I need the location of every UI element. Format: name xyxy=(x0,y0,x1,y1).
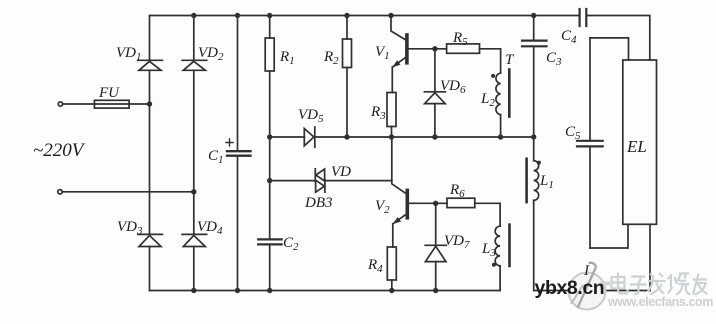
wire top rail right of C4 xyxy=(587,16,650,61)
svg-text:VD: VD xyxy=(331,164,351,180)
wire bottom rail xyxy=(150,290,501,292)
watermark logo circle xyxy=(569,263,606,310)
node input terminal 1 xyxy=(58,102,62,106)
wire column VD2/VD4 xyxy=(193,16,195,291)
svg-text:V1: V1 xyxy=(375,44,390,62)
capacitor C1 xyxy=(227,150,251,152)
diode VD3 xyxy=(138,233,163,235)
svg-text:L3: L3 xyxy=(481,241,496,259)
wire VD6 column xyxy=(434,49,436,137)
svg-text:R6: R6 xyxy=(449,182,465,200)
svg-text:L2: L2 xyxy=(480,91,495,109)
junction dot input2 node xyxy=(191,189,196,194)
capacitor C5 xyxy=(577,140,603,142)
svg-text:C4: C4 xyxy=(561,28,577,46)
wire midpoint row xyxy=(270,136,534,138)
wire V1 collector xyxy=(391,16,405,40)
wire lamp bottom-left loop xyxy=(590,224,628,248)
wire lamp bottom segment xyxy=(534,290,650,292)
diode VD4 xyxy=(182,233,207,235)
inductor L2 xyxy=(496,73,501,114)
svg-text:R5: R5 xyxy=(452,30,468,48)
phase dot L1 xyxy=(537,161,541,165)
svg-text:~220V: ~220V xyxy=(33,140,86,161)
svg-text:DB3: DB3 xyxy=(304,195,333,211)
watermark chinese characters xyxy=(612,273,708,295)
wire lamp bottom-right lead xyxy=(649,224,651,290)
resistor R6 xyxy=(447,198,475,207)
char shao xyxy=(668,274,691,295)
svg-text:VD6: VD6 xyxy=(440,78,466,96)
svg-text:R3: R3 xyxy=(370,104,386,122)
svg-text:ybx8.cn: ybx8.cn xyxy=(535,277,605,299)
wire column C3 xyxy=(533,16,535,138)
capacitor C3 xyxy=(522,39,547,41)
wire R4 to rail xyxy=(391,280,393,291)
wire column VD1/VD3 xyxy=(149,16,151,291)
char fa xyxy=(648,273,666,295)
wire V2 base lead xyxy=(409,202,447,204)
char you xyxy=(693,274,708,295)
lamp tube EL xyxy=(623,60,657,224)
svg-text:www.elecfans.com: www.elecfans.com xyxy=(607,295,713,309)
junction dot V1 base node xyxy=(432,46,437,51)
wire V1 base lead xyxy=(409,48,447,50)
junction dot FU node xyxy=(147,101,152,106)
svg-text:VD4: VD4 xyxy=(197,219,223,237)
wire top rail xyxy=(150,15,579,17)
svg-text:EL: EL xyxy=(626,137,647,156)
svg-text:VD7: VD7 xyxy=(444,233,470,251)
char zi xyxy=(630,277,647,295)
wire DB3 row xyxy=(270,180,392,182)
capacitor C4 xyxy=(578,9,580,26)
inductor L3 xyxy=(495,226,500,266)
wire R3 to midpoint xyxy=(391,127,393,138)
diode VD2 xyxy=(182,59,207,61)
junction dots bottom rail xyxy=(191,288,196,293)
core bar T (lower) xyxy=(508,225,511,266)
resistor R3 xyxy=(387,93,396,127)
wire input 2 xyxy=(62,191,194,193)
svg-text:VD3: VD3 xyxy=(117,219,143,237)
phase dot L3 xyxy=(492,263,496,267)
fuse FU xyxy=(94,100,129,108)
junction dot DB3 row xyxy=(267,178,272,183)
svg-text:T: T xyxy=(505,52,515,68)
junction dots midpoint row xyxy=(267,134,272,139)
svg-text:R4: R4 xyxy=(367,257,383,275)
wire column R2 xyxy=(346,16,348,138)
svg-text:V2: V2 xyxy=(375,198,390,216)
resistor R5 xyxy=(447,44,480,53)
svg-text:C2: C2 xyxy=(283,235,299,253)
svg-text:R1: R1 xyxy=(279,49,295,67)
svg-text:R2: R2 xyxy=(323,49,339,67)
core bar T (upper) xyxy=(508,70,511,117)
svg-text:VD2: VD2 xyxy=(198,45,224,63)
svg-text:VD5: VD5 xyxy=(298,107,324,125)
svg-text:FU: FU xyxy=(98,85,120,101)
resistor R2 xyxy=(343,39,352,68)
junction dot V2 base node xyxy=(433,201,438,206)
inductor L1 xyxy=(534,161,539,201)
phase dot L2 xyxy=(491,74,495,78)
wire V2 collector xyxy=(392,137,406,193)
diode VD7 xyxy=(425,244,446,246)
core bar T (right) xyxy=(525,159,528,202)
transistor V2 xyxy=(405,190,409,217)
wire C5 column xyxy=(589,38,591,248)
svg-text:L1: L1 xyxy=(539,173,554,191)
diode VD5 xyxy=(304,129,314,146)
diac DB3 xyxy=(314,169,316,182)
capacitor C2 xyxy=(258,238,282,240)
char dian xyxy=(612,277,625,289)
plus sign C1 xyxy=(226,139,233,146)
junction dots top rail xyxy=(147,13,537,293)
svg-text:C5: C5 xyxy=(565,124,581,142)
wire fuse line xyxy=(63,103,150,105)
wire L1 column xyxy=(533,137,535,161)
watermark dash xyxy=(601,282,611,286)
wire lamp top bridge xyxy=(590,38,629,60)
svg-text:C3: C3 xyxy=(546,50,562,68)
diode VD6 xyxy=(424,91,445,93)
wire R5 to L2 xyxy=(480,49,501,73)
svg-text:C1: C1 xyxy=(208,148,224,166)
wire R6 to L3 xyxy=(475,203,500,226)
wire VD7 column xyxy=(435,203,437,290)
wire column C1 xyxy=(237,16,239,291)
wire column R1/C2 xyxy=(269,16,271,291)
resistor R1 xyxy=(265,38,274,71)
node input terminal 2 xyxy=(58,190,62,194)
svg-text:VD1: VD1 xyxy=(116,45,142,63)
transistor V1 xyxy=(405,35,409,63)
diode VD1 xyxy=(138,59,163,61)
resistor R4 xyxy=(387,247,396,280)
